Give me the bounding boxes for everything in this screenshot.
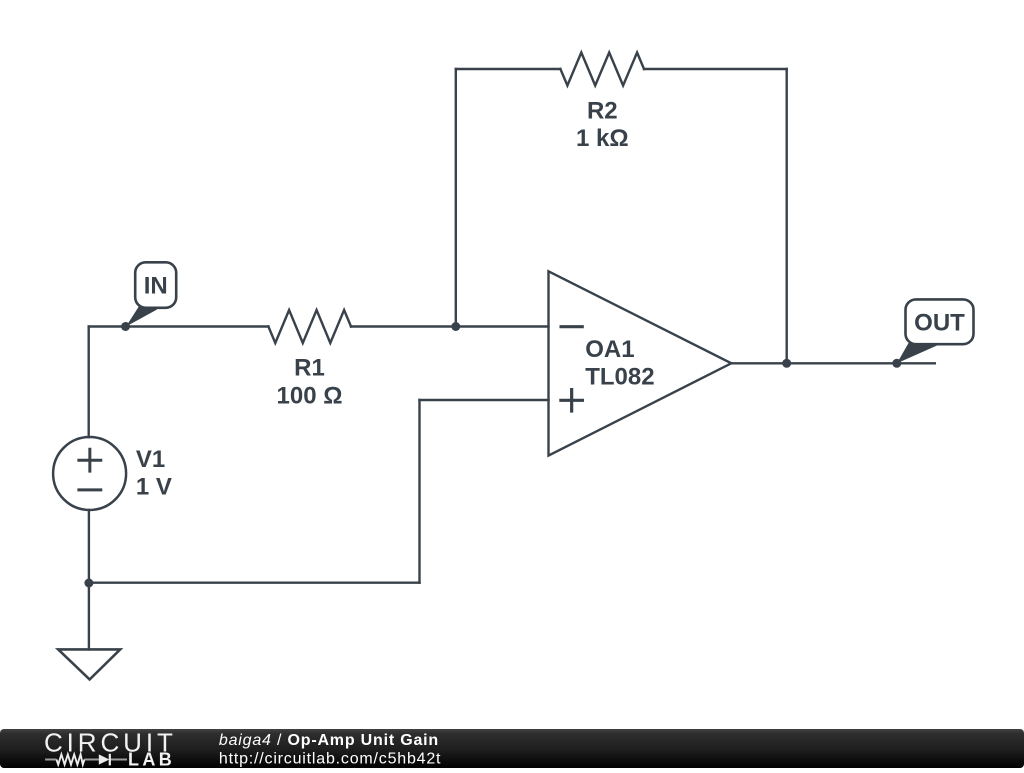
svg-text:V1: V1 <box>136 446 165 473</box>
ground symbol <box>58 649 120 679</box>
svg-text:IN: IN <box>144 273 168 300</box>
resistor R1 <box>268 310 351 343</box>
node junction: feedback tap on input wire <box>451 322 460 331</box>
flag OUT pointer tail <box>897 343 937 363</box>
wire: left vertical from IN corner down to V1 top <box>87 327 89 438</box>
svg-text:baiga4 / Op-Amp Unit Gain: baiga4 / Op-Amp Unit Gain <box>219 732 439 749</box>
svg-text:R1: R1 <box>294 355 325 382</box>
wire: feedback right vertical down to output node <box>786 69 788 363</box>
node OUT flag box <box>906 299 974 344</box>
wire: R1 right lead to op-amp inverting input <box>351 325 549 327</box>
node junction: op-amp output / feedback <box>782 359 791 368</box>
svg-text:http://circuitlab.com/c5hb42t: http://circuitlab.com/c5hb42t <box>219 750 441 767</box>
voltage source V1 plus polarity mark <box>77 448 102 473</box>
node junction: OUT flag attachment <box>892 359 901 368</box>
wire: V1 bottom to ground symbol <box>88 510 90 649</box>
op-amp inverting input minus marker <box>560 325 584 328</box>
flag IN pointer tail <box>126 307 158 327</box>
footer bar background <box>0 729 1024 768</box>
wire: R2 right lead across to right edge of loop <box>644 68 787 70</box>
resistor R2 <box>560 53 644 86</box>
wire: horizontal from left corner to R1 left lead <box>89 325 269 327</box>
wire: bottom horizontal return to ground node <box>89 582 420 584</box>
svg-text:OA1: OA1 <box>585 336 634 363</box>
svg-text:OUT: OUT <box>914 309 965 336</box>
svg-text:100 Ω: 100 Ω <box>277 382 343 409</box>
voltage source V1 circle <box>53 437 126 510</box>
node junction: ground net on bottom wire <box>84 579 93 588</box>
svg-text:R2: R2 <box>587 97 618 124</box>
svg-text:1 V: 1 V <box>136 474 172 501</box>
node junction: IN flag attachment on input wire <box>121 322 130 331</box>
wire: feedback vertical riser from input node up <box>455 69 457 327</box>
CircuitLab logo resistor-diode glyph <box>45 754 127 766</box>
node IN flag box <box>135 262 176 308</box>
wire: top horizontal to R2 left lead <box>456 68 561 70</box>
svg-text:LAB: LAB <box>128 750 175 768</box>
svg-text:TL082: TL082 <box>585 364 654 391</box>
wire: non-inverting input run left from op-amp <box>420 399 549 401</box>
op-amp U1 triangle body <box>549 271 732 455</box>
op-amp non-inverting input plus marker <box>559 388 584 413</box>
svg-text:1 kΩ: 1 kΩ <box>576 125 629 152</box>
voltage source V1 minus polarity mark <box>77 488 102 491</box>
wire: vertical down from non-inverting corner <box>418 400 420 583</box>
wire: op-amp output to OUT stub end <box>731 362 935 364</box>
